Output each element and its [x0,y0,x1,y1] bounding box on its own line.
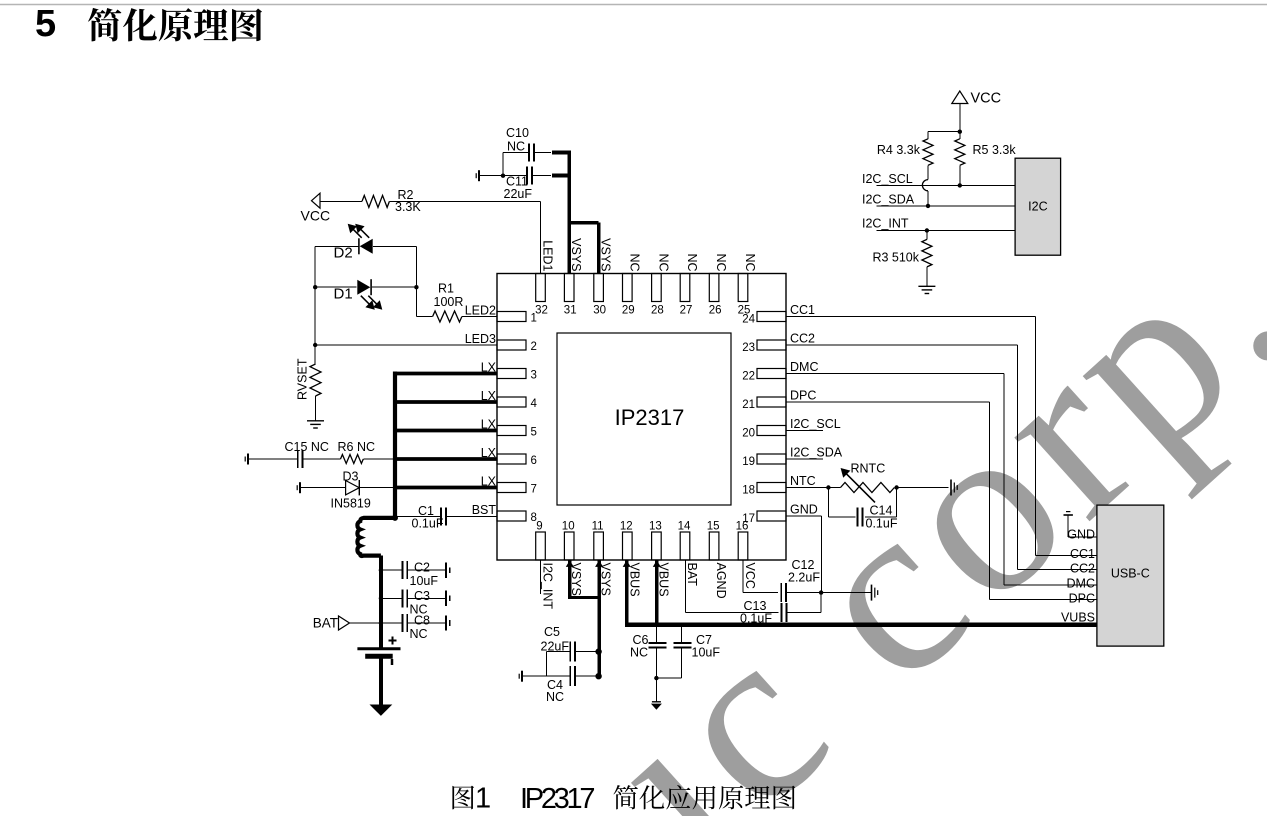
wire VSYS pin10 jog [568,560,599,598]
ground C6 arrow [651,702,662,710]
ground NTC earth right [951,480,957,496]
svg-text:6: 6 [531,455,537,467]
wire C15 to R6 [303,458,341,460]
capacitor C5 [541,625,576,662]
wire I2C_INT net [862,217,1015,231]
svg-text:4: 4 [531,398,538,410]
svg-text:21: 21 [742,399,755,411]
svg-text:19: 19 [742,456,755,468]
capacitor C6 [630,633,667,660]
svg-text:NC: NC [714,253,728,271]
svg-text:CC1: CC1 [790,303,815,317]
wire LED3 row pin2 [315,344,497,346]
svg-text:5: 5 [35,3,56,45]
IC U1 IP2317 QFN body [497,274,786,561]
junction C8 bus [379,621,383,625]
svg-text:NC: NC [546,690,564,704]
svg-text:RNTC: RNTC [851,462,886,476]
svg-text:NC: NC [410,627,428,641]
svg-text:VCC: VCC [971,91,1002,107]
svg-text:1: 1 [475,783,491,815]
arrow VBUS pin12 [623,560,631,567]
wire pin17 GND [786,516,822,593]
wire VSYS thick top [552,150,599,273]
capacitor C10 [506,126,534,161]
svg-text:5: 5 [531,427,537,439]
hop R4 over SCL [922,180,928,191]
wire NTC row [786,487,841,489]
wire C10 left rail [503,152,529,175]
port stub C11 left [476,170,479,181]
arrow VSYS pin11 [595,560,603,567]
svg-text:0.1uF: 0.1uF [866,517,898,531]
heading number 5 [35,3,56,45]
wire VCC to R2 [320,200,362,202]
top pin labels [541,238,758,271]
svg-text:16: 16 [736,521,749,533]
USB-C connector J1 [1097,505,1164,646]
wire USB-C GND stub [1068,515,1097,537]
junction C2 bus [379,568,383,572]
svg-text:LED3: LED3 [465,332,496,346]
capacitor C7 [673,633,720,660]
svg-text:VSYS: VSYS [569,238,583,271]
svg-text:D2: D2 [334,245,353,262]
wire VBUS pin13 down [655,560,658,626]
USB-C pin labels [1061,528,1095,625]
svg-text:NC: NC [656,253,670,271]
svg-text:LED1: LED1 [541,240,555,271]
wire I2C_INT pin9 down [540,560,542,594]
wire I2C_SCL net [862,172,1015,186]
svg-text:R4 3.3k: R4 3.3k [877,143,921,157]
capacitor C14 [858,504,898,531]
wire I2C_SCL stub [786,430,823,432]
left pin labels [465,304,497,518]
wire pin14 BAT to C13 [685,560,778,613]
capacitor C15 [285,440,329,468]
wire RVSET to ground [315,396,317,421]
wire BAT row [350,622,381,624]
wire VBUS pin12 down [625,560,628,626]
wire battery bus [379,555,383,648]
wire DPC net [786,402,1097,600]
wire left LED bus [314,246,316,364]
svg-text:10uF: 10uF [410,574,439,588]
svg-text:R5 3.3k: R5 3.3k [973,143,1017,157]
wire C11 left [479,175,527,177]
svg-text:C3: C3 [414,589,430,603]
wire pin16 VCC to C12 [743,560,778,593]
svg-text:R6 NC: R6 NC [338,440,376,454]
capacitor C12 [781,558,820,602]
resistor R3 [872,239,931,267]
battery BT1 [357,637,400,666]
svg-text:RVSET: RVSET [296,358,310,400]
wire I2C_SDA stub [786,458,823,460]
svg-text:I2C_INT: I2C_INT [541,563,555,610]
arrow VSYS pin10 [566,560,574,567]
wire D2 row [315,245,416,247]
capacitor C3 [381,589,450,617]
junction C3 bus [379,596,383,600]
wire VCC down [928,104,960,139]
svg-text:3.3K: 3.3K [395,200,421,214]
svg-text:NC: NC [743,253,757,271]
junction C12 gnd [819,590,823,594]
svg-text:22uF: 22uF [504,187,533,201]
junction C6 C7 [654,676,658,680]
wire C4 row [522,675,597,677]
svg-text:C10: C10 [506,126,529,140]
wire R6 to LX bus [363,458,395,460]
wire C7 [656,627,681,678]
svg-text:I2C_SDA: I2C_SDA [790,446,843,460]
junction R5 SCL [958,183,962,187]
wire C5 row [546,652,596,677]
svg-text:IP2317: IP2317 [615,405,685,430]
svg-text:30: 30 [593,304,606,316]
svg-text:VCC: VCC [301,207,331,223]
wire C12 right [786,592,871,594]
wire D1 row [315,286,416,288]
svg-text:11: 11 [592,521,604,533]
svg-text:10uF: 10uF [692,646,721,660]
svg-text:26: 26 [709,304,722,316]
svg-text:NC: NC [507,140,525,154]
svg-text:2.2uF: 2.2uF [788,571,820,585]
wire R4 to hop [927,165,929,179]
wire R5 to SCL [959,165,961,185]
junction R3 INT [925,228,929,232]
svg-text:22: 22 [742,371,755,383]
resistor R6 [338,440,376,464]
capacitor C2 [381,561,450,589]
heading title 简化原理图 [88,8,262,42]
junction R4 SDA [926,204,930,208]
svg-text:C8: C8 [414,614,430,628]
port BAT arrow [313,616,350,631]
svg-text:25: 25 [738,304,751,316]
svg-text:C14: C14 [870,504,893,518]
svg-text:31: 31 [564,304,577,316]
svg-text:100R: 100R [434,295,464,309]
svg-text:2: 2 [531,341,537,353]
junction LX C1 [392,515,398,521]
capacitor C13 [740,599,786,626]
svg-text:DPC: DPC [790,389,816,403]
wire C6 [655,627,657,702]
svg-text:I2C_SCL: I2C_SCL [862,172,913,186]
wire R4 to SDA [927,191,929,206]
ground battery [370,705,393,716]
junction VCC R5 [958,130,962,134]
capacitor C11 [504,167,533,202]
junction left bus D1 [313,285,317,289]
ground USB-C tick [1064,512,1073,515]
ground RVSET [307,421,324,428]
svg-text:DMC: DMC [790,360,818,374]
watermark [554,165,1267,816]
junction C4 bus [595,673,601,679]
LED D2 [334,224,373,262]
svg-text:I2C_SCL: I2C_SCL [790,417,841,431]
svg-text:IP2317: IP2317 [520,783,596,815]
wire R1 row pin1 [416,316,497,318]
wire C10 right thin [534,151,551,153]
wire LX bus [393,372,497,519]
port VCC left [301,193,331,223]
svg-text:I2C: I2C [1028,200,1047,214]
svg-text:I2C_INT: I2C_INT [862,217,909,231]
wire C15 left [248,458,298,460]
svg-text:20: 20 [742,428,755,440]
arrow VBUS pin13 [653,560,661,567]
svg-text:D3: D3 [343,470,359,484]
wire CC2 net [786,345,1097,570]
svg-text:I2C_SDA: I2C_SDA [862,193,915,207]
resistor R5 [955,139,1017,166]
header rule [0,4,1267,6]
port stub C4 left [519,671,522,682]
svg-text:CC2: CC2 [1070,561,1095,575]
svg-text:GND: GND [790,503,818,517]
junction C5 bus [595,648,601,654]
wire C13 right [787,593,821,613]
svg-text:IN5819: IN5819 [331,497,371,511]
junction NTC left [826,485,830,489]
svg-text:29: 29 [622,304,635,316]
svg-text:C2: C2 [414,561,430,575]
wire RNTC right [894,487,948,489]
right pin labels [790,303,843,517]
svg-text:14: 14 [678,521,691,533]
svg-text:12: 12 [620,521,633,533]
wire C14 loop [828,488,896,518]
ground C12 earth right [872,585,878,601]
wire INT to R3 [926,231,928,240]
port stub C15 left [245,454,248,465]
svg-text:CC2: CC2 [790,332,815,346]
junction right bus D1 [414,285,418,289]
svg-text:15: 15 [707,521,720,533]
resistor R4 [877,139,933,166]
wire R2 to pin32 LED1 [389,201,540,273]
svg-text:DPC: DPC [1069,591,1095,605]
resistor RVSET [296,358,322,400]
wire right LED bus [415,246,417,316]
svg-text:NC: NC [627,253,641,271]
svg-text:NC: NC [630,646,648,660]
svg-text:0.1uF: 0.1uF [412,517,444,531]
svg-text:VSYS: VSYS [599,238,613,271]
svg-text:23: 23 [742,342,755,354]
svg-text:NC: NC [685,253,699,271]
svg-text:DMC: DMC [1067,577,1095,591]
wire VUBS thick bus [625,622,1097,627]
capacitor C1 [412,504,446,531]
LED D1 [334,279,383,310]
svg-text:C15 NC: C15 NC [285,440,329,454]
wire VSYS pin11 down [597,560,600,676]
resistor R1 [433,282,464,323]
resistor RNTC [841,462,895,503]
wire I2C_SDA net [862,193,1015,207]
svg-text:3: 3 [531,370,537,382]
svg-text:32: 32 [535,304,548,316]
resistor R2 [362,188,421,214]
junction NTC right [894,485,898,489]
svg-text:R1: R1 [438,282,454,296]
diode D3 IN5819 [331,470,371,511]
svg-text:BST: BST [472,503,497,517]
svg-text:10: 10 [562,521,575,533]
svg-text:18: 18 [742,485,755,497]
svg-text:USB-C: USB-C [1111,567,1150,581]
svg-text:0.1uF: 0.1uF [740,612,772,626]
inductor L1 [357,518,395,556]
wire C1 row pin8 [395,516,497,518]
port stub D3 left [297,482,300,493]
svg-text:7: 7 [531,484,537,496]
svg-text:27: 27 [680,304,693,316]
capacitor C8 [381,614,450,642]
svg-text:D1: D1 [334,286,353,303]
svg-text:28: 28 [651,304,664,316]
wire battery to ground [379,656,383,705]
port VCC top right [952,91,1001,107]
I2C block [1015,158,1061,255]
svg-text:LED2: LED2 [465,304,496,318]
svg-text:R3 510k: R3 510k [872,251,919,265]
svg-text:VCC: VCC [743,563,757,589]
svg-text:VBUS: VBUS [627,563,641,597]
svg-text:BAT: BAT [313,616,338,631]
junction left bus LED3 [313,343,317,347]
wire C11 right thin [532,175,551,177]
wire DMC net [786,374,1097,585]
svg-text:AGND: AGND [714,563,728,599]
svg-text:CC1: CC1 [1070,547,1095,561]
ground R3 [918,286,935,293]
svg-text:9: 9 [536,521,542,533]
bottom pin labels [541,563,758,610]
svg-text:C5: C5 [544,625,560,639]
svg-text:GND: GND [1067,528,1095,542]
svg-text:NTC: NTC [790,474,816,488]
wire CC1 net [786,317,1097,556]
svg-text:BAT: BAT [685,563,699,587]
capacitor C4 [546,666,575,704]
wire D3 row [300,487,395,489]
svg-text:13: 13 [649,521,662,533]
svg-text:VUBS: VUBS [1061,611,1095,625]
junction C10/C11 rail [501,174,505,178]
caption 图1 IP2317 简化应用原理图 [452,783,795,815]
wire R3 to ground [926,267,928,286]
